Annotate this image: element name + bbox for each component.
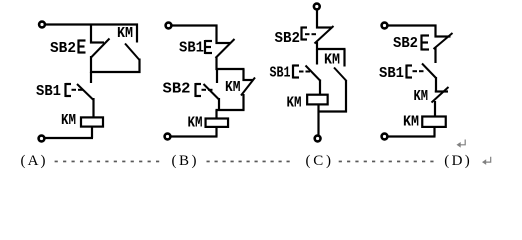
svg-text:KM: KM [188,116,203,132]
svg-text:SB2: SB2 [393,36,418,52]
svg-text:SB1: SB1 [270,66,291,82]
svg-text:KM: KM [61,113,76,129]
svg-text:KM: KM [324,53,340,69]
svg-text:KM: KM [225,80,241,96]
svg-text:SB1: SB1 [179,41,204,57]
svg-text:SB1: SB1 [379,66,404,82]
svg-text:KM: KM [117,26,133,42]
svg-text:(C): (C) [306,153,332,169]
svg-text:SB2: SB2 [50,41,76,57]
svg-text:KM: KM [414,89,429,105]
svg-text:(D): (D) [444,153,470,169]
svg-text:(A): (A) [21,153,46,169]
svg-text:SB2: SB2 [163,82,191,98]
svg-text:SB1: SB1 [36,84,61,100]
svg-text:KM: KM [403,115,419,131]
svg-text:KM: KM [287,96,302,112]
svg-text:SB2: SB2 [275,31,301,47]
svg-text:(B): (B) [172,153,197,169]
